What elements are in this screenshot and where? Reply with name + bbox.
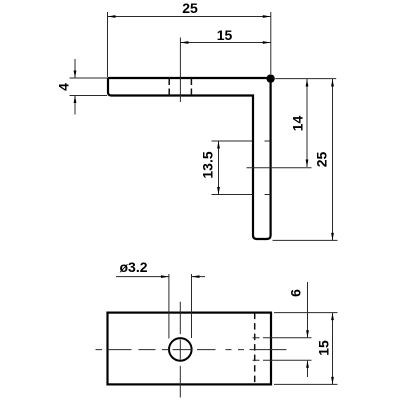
extension line for dim 14 bottom <box>247 167 312 169</box>
vertical centre line of hole <box>179 302 181 398</box>
bend line (hidden) in bottom view <box>254 313 256 385</box>
extension line top right of bottom view <box>274 312 338 314</box>
svg-text:25: 25 <box>314 152 330 168</box>
dimension 6 (arrows outside) <box>307 282 309 337</box>
dimension line 13.5 <box>218 141 220 195</box>
svg-text:4: 4 <box>56 83 72 91</box>
extension line for dim 25 right bottom <box>273 239 338 241</box>
extension line right for dims 25/15 top <box>270 12 272 74</box>
svg-text:13.5: 13.5 <box>200 151 216 178</box>
extension / centre line of hole (side view) <box>179 38 181 103</box>
svg-text:6: 6 <box>288 289 304 297</box>
L-bracket outline (side view) <box>108 78 271 239</box>
svg-text:15: 15 <box>316 340 332 356</box>
svg-text:25: 25 <box>182 0 198 16</box>
extension line from datum dot to the right <box>275 78 336 80</box>
dimension line 15 bottom <box>332 313 334 385</box>
horizontal centre line of hole <box>96 349 287 351</box>
dimension line 14 <box>306 79 308 167</box>
extension line bottom right of bottom view <box>274 383 338 385</box>
svg-text:ø3.2: ø3.2 <box>120 259 148 275</box>
extension line hole bottom edge <box>253 359 312 361</box>
datum dot at top-right corner <box>266 74 274 82</box>
extension lines for dia 3.2 <box>168 274 170 339</box>
extension line hole top edge <box>253 337 312 339</box>
svg-text:14: 14 <box>290 116 306 132</box>
svg-text:15: 15 <box>217 27 233 43</box>
extension line left for dim 25 top <box>107 12 109 77</box>
dimension line 25 top <box>108 16 271 18</box>
bottom view rectangle <box>108 313 272 385</box>
dimension line dia 3.2 (arrows outside) <box>116 276 169 278</box>
extension lines for dim 13.5 <box>212 140 253 142</box>
dimension 4 (arrows outside) <box>74 59 76 78</box>
dimension line 25 right <box>332 79 334 240</box>
hole circle <box>169 338 192 361</box>
dimension line 15 top <box>180 42 270 44</box>
hidden hole line right (side view) <box>190 78 192 96</box>
hidden hole line left (side view) <box>168 78 170 96</box>
extension lines for dim 4 <box>70 77 108 79</box>
